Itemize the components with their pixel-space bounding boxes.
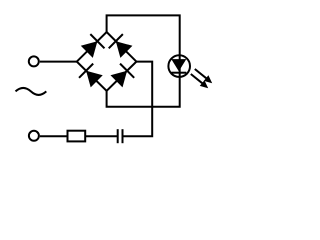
terminal upper AC input	[29, 56, 39, 66]
wire bridge right node down to bottom branch	[123, 62, 153, 137]
wire DC loop: bridge top node up, across, down through LED, back to bridge bottom node	[107, 15, 180, 106]
diode D2 upper-right	[109, 34, 134, 59]
LED light arrow 2	[191, 74, 208, 88]
AC source symbol	[16, 88, 47, 95]
LED D5	[168, 55, 190, 77]
capacitor C1	[118, 129, 123, 143]
diode D1 upper-left	[80, 34, 105, 59]
diode D4 lower-right	[109, 64, 134, 89]
terminal lower AC input	[29, 131, 39, 141]
resistor R1	[68, 131, 86, 142]
bridge rectifier diamond wiring	[77, 32, 137, 91]
LED light arrow 1	[195, 69, 212, 83]
diode D3 lower-left	[79, 64, 104, 89]
wire lower terminal to resistor	[40, 135, 69, 137]
wire upper terminal to bridge left node	[40, 61, 77, 63]
wire resistor to capacitor	[85, 135, 118, 137]
